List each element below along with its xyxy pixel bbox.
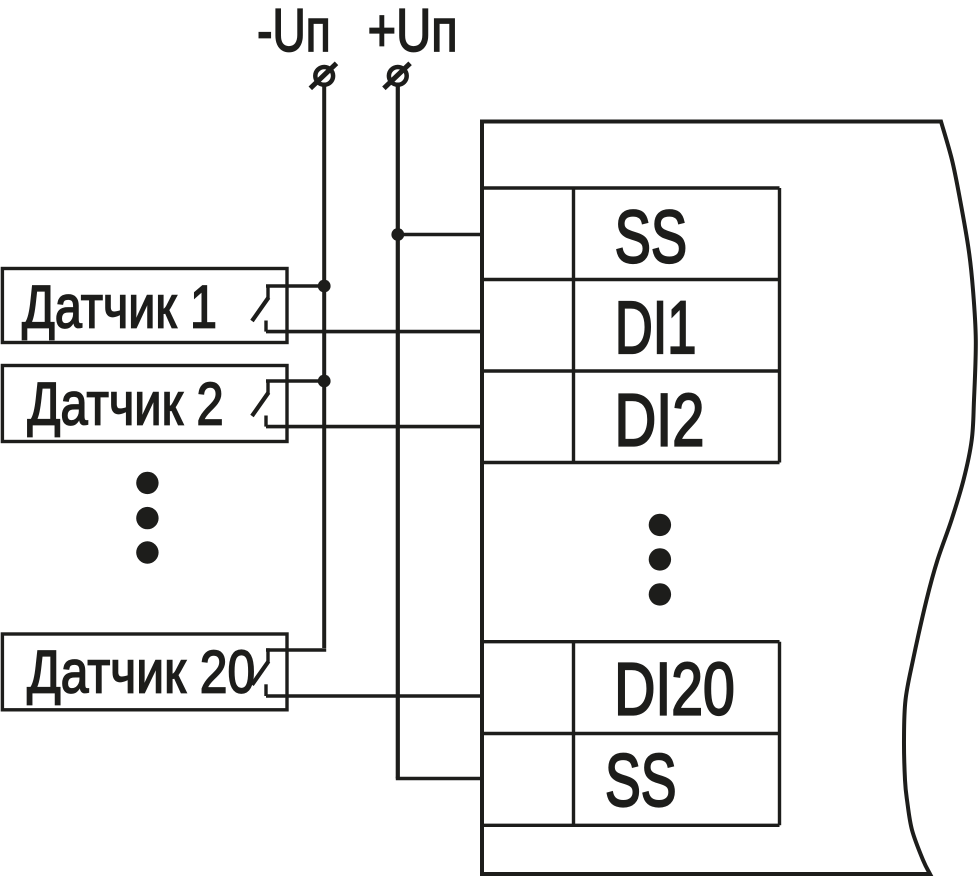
terminal symbol -Uп (circle with slash) — [310, 63, 336, 88]
switch contact S1 in Датчик 1 — [252, 285, 269, 332]
wire Датчик 2 to terminal DI2 — [266, 425, 484, 429]
svg-text:DI20: DI20 — [614, 649, 735, 732]
terminal block grid (rows SS, DI1, DI2) — [482, 188, 780, 463]
sensor box Датчик 20 — [2, 634, 287, 710]
wire +Uп bus to bottom terminal SS — [396, 777, 484, 781]
switch contact S20 in Датчик 20 — [252, 648, 269, 696]
svg-text:Датчик 2: Датчик 2 — [27, 370, 223, 438]
wire -Uп bus to Датчик 20 top contact — [266, 648, 326, 652]
wire +Uп bus to terminal SS — [398, 233, 484, 237]
wire +Uп vertical bus — [396, 85, 400, 779]
module body outline with torn right edge — [482, 122, 976, 875]
svg-text:Датчик 20: Датчик 20 — [27, 638, 255, 705]
junction dot -Uп/Датчик 1 — [318, 280, 331, 293]
wire -Uп vertical bus — [322, 85, 326, 649]
svg-text:-Uп: -Uп — [257, 0, 331, 64]
svg-text:+Uп: +Uп — [368, 0, 458, 64]
wire Датчик 1 top contact to -Uп bus — [266, 284, 324, 287]
switch contact S2 in Датчик 2 — [252, 380, 269, 427]
svg-text:DI1: DI1 — [615, 286, 697, 369]
junction dot +Uп/SS — [391, 228, 404, 241]
wire Датчик 20 to terminal DI20 — [266, 694, 484, 698]
ellipsis dots (terminals DI3..DI19) — [649, 514, 671, 606]
terminal symbol +Uп (circle with slash) — [384, 63, 410, 88]
sensor box Датчик 1 — [2, 269, 287, 343]
wire Датчик 2 top contact to -Uп bus — [266, 379, 324, 382]
terminal block grid (rows DI20, SS) — [482, 642, 780, 826]
svg-text:Датчик 1: Датчик 1 — [22, 274, 217, 341]
svg-text:DI2: DI2 — [614, 380, 704, 462]
ellipsis dots (sensors 3..19) — [136, 472, 158, 564]
junction dot -Uп/Датчик 2 — [318, 375, 331, 388]
sensor box Датчик 2 — [2, 366, 287, 442]
wire Датчик 1 to terminal DI1 — [266, 330, 484, 334]
svg-text:SS: SS — [605, 738, 677, 822]
svg-text:SS: SS — [615, 195, 687, 278]
